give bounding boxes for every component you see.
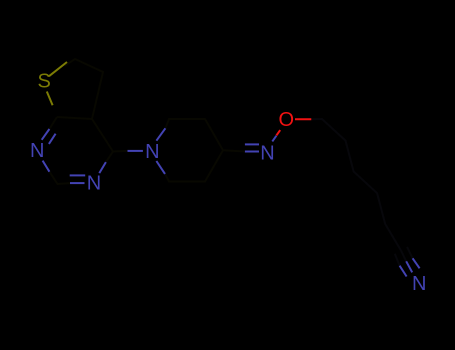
svg-text:N: N [145, 141, 159, 163]
svg-text:O: O [279, 109, 295, 131]
svg-text:S: S [38, 71, 51, 93]
svg-text:N: N [30, 140, 44, 162]
svg-text:N: N [87, 173, 101, 195]
svg-text:N: N [412, 273, 426, 295]
svg-text:N: N [260, 143, 274, 165]
